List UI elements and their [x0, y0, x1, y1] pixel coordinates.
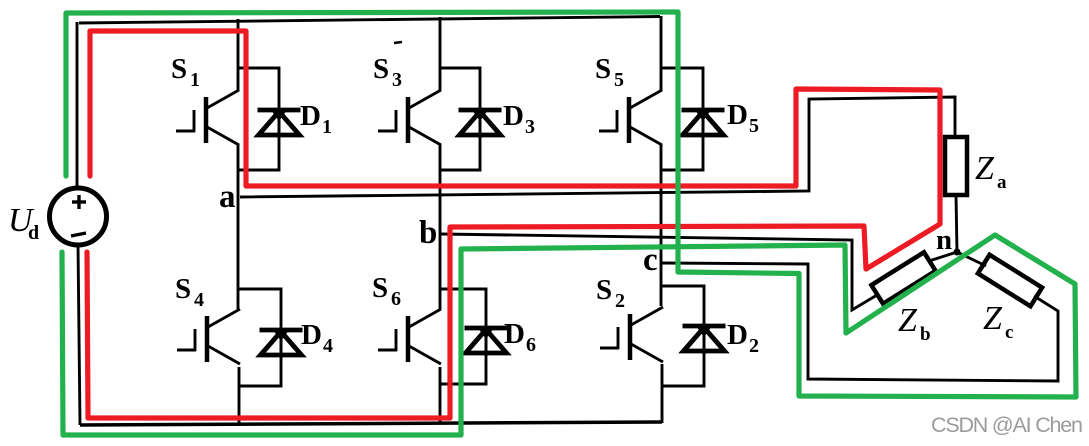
wire D2 branch bottom [662, 352, 704, 386]
wire leg C bottom [661, 364, 664, 423]
wire n to Zc [957, 252, 986, 266]
transistor S4 [177, 309, 240, 364]
diode D4 [260, 330, 303, 357]
svg-text:D: D [301, 319, 322, 351]
wire bottom bus [80, 422, 662, 425]
svg-text:3: 3 [525, 116, 535, 138]
wire Za to n [956, 195, 957, 252]
diode D1 [258, 110, 301, 137]
svg-text:S: S [175, 273, 191, 305]
wire leg A bottom [238, 367, 241, 425]
svg-text:5: 5 [614, 69, 624, 91]
svg-text:Z: Z [983, 300, 1003, 337]
junction n dot [954, 249, 961, 256]
wire leg B middle [439, 144, 442, 309]
wire top bus [79, 17, 660, 24]
wire D2 branch top [662, 286, 704, 327]
svg-text:D: D [727, 319, 748, 351]
svg-text:1: 1 [190, 69, 200, 91]
diode D2 [683, 326, 726, 353]
wire phase a [240, 97, 955, 197]
wire phase c [662, 263, 1058, 381]
wire D1 branch bottom [238, 136, 279, 170]
transistor S5 [599, 90, 662, 145]
dc source Ud [50, 188, 107, 245]
diode D5 [682, 110, 725, 137]
svg-text:4: 4 [323, 335, 333, 357]
svg-text:6: 6 [526, 334, 536, 356]
wire D1 branch top [238, 68, 279, 111]
transistor S2 [600, 307, 663, 362]
svg-text:CSDN @AI Chen: CSDN @AI Chen [931, 413, 1082, 437]
wire leg C top [660, 16, 663, 91]
svg-text:Z: Z [975, 150, 995, 187]
transistor S3 [378, 90, 441, 145]
resistor Zb [871, 252, 935, 304]
wire leg B top [439, 17, 442, 91]
transistor S6 [378, 309, 441, 364]
svg-text:5: 5 [749, 115, 759, 137]
resistor Zc [978, 255, 1042, 307]
svg-text:S: S [171, 53, 187, 85]
svg-text:S: S [595, 53, 611, 85]
wire Zb to n [929, 252, 957, 261]
wire source top [76, 22, 79, 188]
svg-text:D: D [503, 100, 524, 132]
wire D5 branch top [661, 68, 703, 111]
svg-text:2: 2 [749, 335, 759, 357]
wire phase b [441, 234, 877, 310]
wire source bottom [78, 245, 80, 425]
wire D4 branch bottom [239, 356, 281, 386]
svg-text:3: 3 [392, 69, 402, 91]
wire leg A top [237, 19, 240, 91]
diode D6 [465, 328, 508, 355]
svg-text:a: a [219, 179, 236, 215]
svg-text:b: b [920, 324, 931, 345]
svg-text:Z: Z [898, 302, 918, 339]
diode D3 [459, 110, 502, 137]
svg-text:1: 1 [322, 116, 332, 138]
svg-text:c: c [1005, 322, 1013, 343]
wire D4 branch top [239, 289, 281, 331]
wire D6 branch bottom [440, 354, 486, 384]
svg-text:S: S [372, 272, 388, 304]
resistor Za [945, 137, 967, 195]
wire D3 branch top [440, 68, 480, 111]
svg-text:b: b [419, 215, 437, 251]
svg-text:D: D [727, 99, 748, 131]
svg-text:a: a [997, 172, 1007, 193]
svg-text:6: 6 [391, 288, 401, 310]
wire leg B bottom [439, 367, 442, 424]
svg-text:4: 4 [194, 289, 204, 311]
transistor S1 [176, 90, 239, 145]
svg-text:d: d [28, 222, 39, 244]
stray mark above S3 [394, 42, 402, 43]
svg-text:2: 2 [615, 290, 625, 312]
wire leg A middle [237, 144, 240, 309]
wire leg C middle [660, 144, 663, 306]
wire D6 branch top [440, 289, 486, 329]
red highlighted path [87, 31, 940, 418]
svg-text:S: S [596, 274, 612, 306]
svg-text:S: S [373, 53, 389, 85]
svg-text:D: D [504, 318, 525, 350]
wire D5 branch bottom [661, 136, 703, 170]
svg-text:D: D [300, 100, 321, 132]
wire D3 branch bottom [440, 136, 480, 170]
svg-text:n: n [936, 224, 952, 256]
